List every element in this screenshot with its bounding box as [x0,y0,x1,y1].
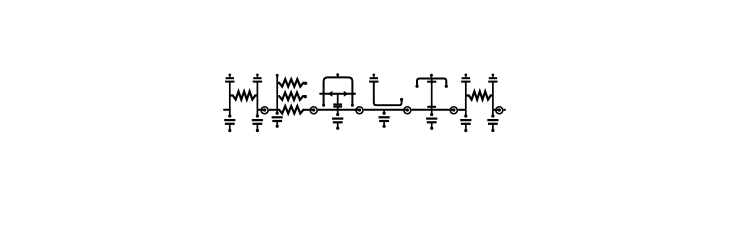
node N1 [261,107,268,114]
wire node N5 to H2 left leg [458,109,466,111]
wire node N1 to E stem [269,109,277,111]
relay coil arch of A [324,77,353,105]
wire E to node N2 [303,109,313,111]
resistor R4 (E bottom arm on baseline) [277,106,304,113]
stub dot on A arch top [336,73,339,76]
wire end stub after node N6 [504,109,506,111]
resistor R2 (E top arm) with open end dot [277,79,304,86]
ground via capacitor under H1 left leg [229,110,231,116]
ground via capacitor under H2 right leg [492,110,494,116]
wire baseline start tick (left of H1) [224,109,230,111]
node N4 [404,107,411,114]
capacitor C5 top of H2 left leg [465,74,468,77]
dot at T bar left end [415,85,418,88]
capacitor plate under T bar [427,81,436,83]
dot at A left leg end [322,104,325,107]
ground via capacitor under L [383,110,385,113]
wire A centre stem [337,94,339,104]
wire baseline node N3 to node N4 [364,109,408,111]
ground via capacitor under T stem [431,110,433,115]
dot at A right leg end [351,104,354,107]
ground via capacitor under H2 left leg [465,110,467,116]
wire T top bar with curled ends [417,79,446,86]
arrowhead left of A [328,91,333,97]
arrowhead right of A [344,91,349,97]
ground via capacitor under H1 right leg [256,110,258,116]
capacitor C2 top of H1 right leg [256,74,259,77]
resistor R5 crossbar of H2 [466,91,493,99]
capacitor C1 top of H1 left leg [229,74,232,77]
stub dot on T top [430,74,433,77]
wire baseline node N4 to node N5 [412,109,454,111]
capacitor C3 on A stem [333,103,342,105]
wire H1 left leg [229,82,231,110]
node N6 [496,107,503,114]
node N2 [310,107,317,114]
ground via capacitor under E stem [276,110,278,113]
capacitor C6 top of H2 right leg [492,74,495,77]
wire T stem [431,79,433,110]
wire H2 right leg to node N6 [493,109,499,111]
wire L bend stroke [374,82,402,106]
node N3 [356,107,363,114]
wire H2 left leg [465,82,467,110]
wire baseline node N2 to node N3 [318,109,360,111]
wire E vertical stem with top dot [276,74,279,77]
dot at T bar right end [445,85,448,88]
ground via capacitor under A stem [337,110,339,115]
capacitor C4 top of L [373,74,376,77]
resistor R1 crossbar of H1 [230,91,258,99]
wire H2 right leg [492,82,494,110]
wire H1 right leg to node N1 [257,109,264,111]
capacitor plate on T stem above baseline [427,106,436,108]
dot at L stroke end [400,98,403,101]
wire arrow line of A [319,93,355,95]
wire H1 right leg [256,82,258,110]
resistor R3 (E middle arm) with open end dot [277,93,304,100]
node N5 [450,107,457,114]
